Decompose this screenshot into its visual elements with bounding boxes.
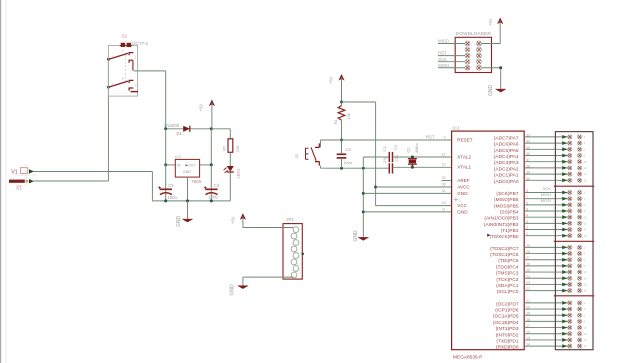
pin number 27	[526, 256, 530, 260]
capacitor C2 name	[393, 144, 398, 150]
header PORTA pin row 6	[562, 166, 587, 170]
header PORTB pin row 5	[562, 215, 587, 219]
svg-text:10: 10	[584, 326, 587, 330]
svg-text:9: 9	[444, 135, 446, 139]
switch S1 pole 2 contacts	[109, 80, 138, 91]
svg-text:X1: X1	[16, 186, 22, 192]
label DOWNLOADER	[456, 31, 491, 37]
svg-text:C4: C4	[214, 183, 220, 188]
wire PB pin 6 to header	[524, 204, 568, 206]
wire ISP VCC to +5V	[481, 25, 500, 44]
junction gnd column AGND row	[362, 192, 365, 195]
svg-text:C1: C1	[382, 146, 387, 152]
capacitor C5	[158, 165, 172, 201]
mark at PB0 pin	[487, 234, 490, 237]
ground symbol (ISP)	[496, 89, 506, 92]
pin name (OC2)PD7	[496, 301, 519, 307]
svg-text:8: 8	[584, 264, 586, 268]
pin name AVCC	[457, 184, 470, 189]
crystal Q1 name	[405, 146, 410, 152]
net label SCK (ISP)	[438, 57, 447, 62]
header PORTA pin row 8	[562, 178, 587, 182]
JP1 pad 2	[291, 233, 297, 239]
LED LED1	[224, 166, 234, 173]
wire PD pin 14 to header	[524, 345, 568, 347]
wire ISP RST stub	[438, 55, 465, 57]
pin name (SCL)PC0	[497, 289, 519, 295]
svg-text:OUT: OUT	[188, 164, 196, 168]
IC IC1 name	[453, 126, 460, 131]
JP1 mark	[301, 253, 304, 256]
wire gnd rail under regulator	[152, 200, 230, 202]
pin number 15	[526, 336, 530, 340]
wire switch output to diode column	[134, 71, 166, 129]
svg-text:3: 3	[122, 49, 124, 53]
wire PA pin 36 to header	[524, 155, 568, 157]
wire AREF stub	[442, 180, 452, 182]
header PORTB pin row 4	[562, 209, 585, 213]
supply +5V arrow (reset pullup)	[338, 74, 344, 102]
pin number 9 (RESET)	[444, 135, 446, 139]
svg-text:10: 10	[584, 215, 587, 219]
pin number 18	[526, 318, 530, 322]
svg-text:(ADC6)PA6: (ADC6)PA6	[494, 142, 519, 148]
svg-text:MISO: MISO	[438, 39, 448, 44]
svg-text:+5V: +5V	[199, 104, 204, 112]
wire PC pin 27 to header	[524, 259, 568, 261]
wire PB pin 8 to header	[524, 192, 568, 194]
wire GND row	[363, 211, 451, 213]
diode D1	[183, 126, 190, 132]
header PORTC pin row 3	[562, 258, 585, 262]
pin cross mark	[454, 197, 461, 202]
supply +5V arrow (ISP)	[497, 18, 503, 26]
pin name (ADC7)PA7	[494, 135, 519, 141]
pin name GND	[457, 191, 468, 196]
wire PC pin 25 to header	[524, 271, 568, 273]
svg-text:+5V: +5V	[488, 18, 493, 26]
switch S1 link line	[125, 55, 127, 84]
svg-text:(INT0)PD2: (INT0)PD2	[496, 332, 519, 338]
wire S2 bottom to gnd row	[320, 166, 322, 169]
svg-text:14: 14	[584, 283, 587, 287]
svg-text:GND: GND	[457, 209, 468, 214]
ground symbol (power section)	[182, 201, 192, 222]
wire PD pin 16 to header	[524, 333, 568, 335]
pin number 25	[526, 269, 530, 273]
wire LED1 to gnd rail	[229, 172, 231, 201]
connector X1 pad minus	[9, 179, 34, 192]
svg-text:12: 12	[584, 166, 587, 170]
svg-text:MEGA8535-P: MEGA8535-P	[453, 354, 483, 360]
wire C1 left plate to gnd column	[363, 156, 389, 158]
junction switch common pole 2	[107, 86, 110, 89]
pin name (TDI)PC5	[498, 258, 519, 264]
svg-text:JP1: JP1	[286, 217, 294, 222]
svg-text:(AIN0/INT2)PB2: (AIN0/INT2)PB2	[484, 222, 519, 228]
regulator value 7805	[191, 179, 202, 185]
pin number 39	[526, 171, 530, 175]
switch S1 pin numbers pole 2	[112, 76, 137, 87]
supply +5V arrow (power section)	[209, 100, 215, 129]
wire PC pin 26 to header	[524, 265, 568, 267]
pin name VCC	[457, 203, 467, 208]
ISP header body	[455, 37, 491, 72]
svg-text:2: 2	[584, 191, 586, 195]
wire +5V to JP1 pin 1	[243, 227, 294, 229]
svg-text:(SCK)PB7: (SCK)PB7	[496, 191, 518, 197]
pin name AREF	[457, 178, 469, 183]
svg-text:(TDI)PC5: (TDI)PC5	[498, 258, 519, 264]
JP1 pad 5	[293, 253, 299, 259]
pin name (ADC4)PA4	[494, 154, 519, 160]
svg-text:10k: 10k	[346, 113, 351, 119]
net label MOSI (ISP)	[438, 63, 448, 68]
svg-text:(OC1A)PD5: (OC1A)PD5	[493, 314, 519, 320]
pin number 24	[526, 275, 530, 279]
svg-text:SCK: SCK	[438, 57, 447, 62]
svg-text:30: 30	[442, 182, 446, 186]
wire RESET row	[321, 139, 452, 141]
pin name (TXD)PD1	[496, 338, 518, 344]
capacitor C5 value 100n	[167, 195, 177, 200]
wire ISP MOSI stub	[438, 67, 465, 69]
pin number 21	[526, 299, 530, 303]
junction ISP GND	[499, 66, 502, 69]
pin name (OC1B)PD4	[493, 320, 519, 326]
JP1 pad 8	[291, 272, 297, 278]
wire PA pin 34 to header	[524, 142, 568, 144]
svg-text:XTAL2: XTAL2	[457, 154, 471, 159]
junction regulator GND on rail	[186, 199, 189, 202]
net label MISO (ISP)	[438, 39, 448, 44]
pin name RESET	[457, 137, 473, 142]
switch S1 label	[122, 34, 128, 39]
svg-text:IN: IN	[177, 164, 181, 168]
net label MOSI	[541, 198, 551, 203]
pin number 33	[526, 133, 530, 137]
svg-text:(ADC4)PA4: (ADC4)PA4	[494, 154, 519, 160]
ground symbol (JP1)	[238, 286, 248, 289]
header PORTD pin row 7	[562, 338, 587, 342]
svg-text:(MISO)PB6: (MISO)PB6	[494, 197, 519, 203]
pin number 40	[526, 177, 530, 181]
pin number 12 (XTAL2)	[442, 152, 446, 156]
svg-text:4: 4	[584, 197, 586, 201]
svg-text:(AIN1/OC0)PB3: (AIN1/OC0)PB3	[484, 216, 518, 222]
svg-text:(OC1B)PD4: (OC1B)PD4	[493, 320, 519, 326]
junction diode anode	[164, 127, 167, 130]
resistor R1 (zigzag)	[338, 102, 345, 140]
svg-text:GND: GND	[183, 170, 191, 174]
svg-text:8MHz: 8MHz	[415, 143, 419, 153]
svg-text:100u: 100u	[208, 195, 218, 200]
wire gnd row (S2/C3/xtal caps)	[321, 167, 390, 169]
pin name (TCK)PC2	[496, 277, 518, 283]
svg-text:1: 1	[135, 56, 137, 60]
border frame left edge	[1, 0, 6, 363]
pin number 31 (GND)	[442, 189, 446, 193]
wire PC pin 23 to header	[524, 283, 568, 285]
pin name (ICP1)PD6	[495, 308, 519, 314]
svg-text:C3: C3	[346, 147, 352, 152]
svg-text:6: 6	[584, 258, 586, 262]
JP1 pad 1	[293, 227, 299, 233]
resistor R1 name	[333, 119, 338, 125]
IC IC1 body	[452, 131, 525, 350]
svg-text:10: 10	[584, 270, 587, 274]
svg-text:11: 11	[442, 207, 446, 211]
pin number 3	[526, 220, 528, 224]
wire R2 to LED1	[229, 152, 231, 166]
svg-text:22p: 22p	[382, 156, 387, 163]
wire AGND row	[363, 192, 451, 194]
svg-text:RST: RST	[426, 134, 435, 139]
svg-text:8: 8	[584, 320, 586, 324]
svg-text:16: 16	[584, 344, 587, 348]
pin number 23	[526, 281, 530, 285]
svg-text:(SDA)PC1: (SDA)PC1	[496, 283, 519, 289]
capacitor C3	[337, 140, 347, 168]
wire PA pin 38 to header	[524, 167, 568, 169]
header PORTC pin row 4	[562, 264, 585, 268]
wire PB pin 4 to header	[524, 216, 568, 218]
svg-text:S2: S2	[294, 153, 299, 159]
header PORTA pin row 3	[562, 147, 585, 151]
svg-text:14: 14	[584, 338, 587, 342]
supply +5V arrow (JP1)	[240, 213, 246, 227]
svg-text:22p: 22p	[394, 154, 399, 161]
wire PC pin 22 to header	[524, 290, 568, 292]
wire PA pin 33 to header	[524, 136, 568, 138]
JP1 pad 3	[293, 240, 299, 246]
wire PB pin 7 to header	[524, 198, 568, 200]
header PORTB pin row 1	[562, 190, 585, 194]
switch S1 pole 1 contacts	[109, 53, 134, 71]
svg-text:(ADC1)PA1: (ADC1)PA1	[494, 173, 519, 179]
pushbutton S2	[306, 143, 320, 165]
junction switch common pole 1	[107, 58, 110, 61]
header PORTB pin row 2	[562, 197, 585, 201]
svg-text:(ADC0)PA0: (ADC0)PA0	[494, 179, 519, 185]
capacitor C1 value 22p	[382, 156, 387, 163]
wire regulator GND pin	[187, 177, 189, 201]
wire switch column to regulator IN	[165, 129, 167, 165]
pin name (ADC6)PA6	[494, 142, 519, 148]
svg-text:13: 13	[442, 163, 446, 167]
svg-text:14: 14	[584, 172, 587, 176]
label GND (mcu)	[353, 230, 359, 242]
svg-text:12: 12	[442, 152, 446, 156]
header PORTD pin row 5	[562, 325, 587, 329]
wire OUT stub	[200, 164, 212, 166]
wire PA pin 37 to header	[524, 161, 568, 163]
pin name (TOSC1)PC6	[490, 252, 519, 258]
svg-text:XTAL1: XTAL1	[457, 165, 471, 170]
svg-text:6: 6	[584, 203, 586, 207]
header PORTC pin row 6	[562, 276, 587, 280]
wire ISP MISO stub	[438, 43, 465, 45]
svg-text:LED1: LED1	[235, 168, 240, 179]
header PORTD pin row 6	[562, 332, 587, 336]
pin number 35	[526, 146, 530, 150]
svg-text:2: 2	[459, 198, 461, 202]
pin name (AIN1/OC0)PB3	[484, 216, 518, 222]
svg-text:DCTT-2: DCTT-2	[132, 41, 148, 46]
capacitor C3 name	[346, 147, 352, 152]
header blocks outer box	[555, 132, 593, 350]
wire PD pin 19 to header	[524, 314, 568, 316]
capacitor C5 name	[168, 183, 174, 188]
pin number 19	[526, 312, 530, 316]
svg-text:(SS)PB4: (SS)PB4	[500, 210, 519, 216]
pin number 16	[526, 330, 530, 334]
header PORTD pin row 8	[562, 344, 587, 348]
svg-text:Q1: Q1	[405, 146, 410, 152]
svg-text:12: 12	[584, 276, 587, 280]
header PORTC pin row 1	[562, 245, 585, 249]
resistor R2	[228, 139, 233, 153]
pin number 38	[526, 164, 530, 168]
wire XTAL1 row	[393, 166, 452, 168]
JP1 pad 6	[291, 259, 297, 265]
diode D1 name	[177, 131, 183, 136]
pin number 1	[526, 232, 528, 236]
capacitor C4 value 100u	[208, 195, 218, 200]
wire corner down at x152	[151, 172, 153, 201]
header PORTC pin row 8	[562, 288, 587, 292]
pin number 10 (VCC)	[442, 201, 446, 205]
svg-text:R1: R1	[333, 119, 338, 125]
voltage regulator IC2 7805 body	[175, 159, 199, 177]
pin name (ADC3)PA3	[494, 160, 519, 166]
pin number 29	[526, 244, 530, 248]
svg-text:GND: GND	[353, 230, 359, 242]
wire PB pin 1 to header	[524, 235, 568, 237]
wire PA pin 35 to header	[524, 148, 568, 150]
svg-text:7805: 7805	[191, 179, 202, 185]
capacitor C1 plates	[389, 152, 392, 162]
pin name GND	[457, 209, 468, 214]
label +5V (JP1)	[230, 216, 235, 224]
svg-text:100n: 100n	[343, 160, 352, 165]
svg-text:+5V: +5V	[230, 216, 235, 224]
svg-text:S1: S1	[122, 34, 128, 39]
svg-text:RESET: RESET	[457, 137, 473, 142]
junction C4 gnd	[210, 199, 213, 202]
resistor R2 name	[222, 145, 227, 151]
svg-text:(T1)PB1: (T1)PB1	[501, 228, 519, 234]
svg-text:C2: C2	[393, 144, 398, 150]
header divider 1	[554, 185, 594, 187]
wire ISP GND	[481, 68, 500, 89]
svg-text:10: 10	[442, 201, 446, 205]
pin name (T1)PB1	[501, 228, 519, 234]
svg-text:6: 6	[122, 76, 124, 80]
wire AVCC junction	[374, 186, 377, 189]
pin name (ADC0)PA0	[494, 179, 519, 185]
header PORTD pin row 1	[562, 301, 585, 305]
junction gnd row / gnd column	[362, 167, 365, 170]
wire VCC row	[376, 205, 452, 207]
net label MISO	[541, 192, 551, 197]
pin name (INT1)PD3	[496, 326, 519, 332]
label GND (power section)	[176, 216, 182, 228]
pin name (MISO)PB6	[494, 197, 519, 203]
capacitor C3 value 100n	[343, 160, 352, 165]
wire +5V vertical to regulator OUT	[210, 129, 212, 165]
label GND (JP1)	[230, 284, 236, 296]
pin number 14	[526, 343, 530, 347]
label +5V (reset pullup)	[329, 76, 334, 84]
junction +5V branch	[340, 101, 343, 104]
resistor R2 value 220	[235, 145, 240, 152]
junction regulator IN / C5	[164, 163, 167, 166]
pushbutton S2 name	[294, 153, 299, 159]
switch S1 pin numbers pole 1	[112, 49, 137, 60]
pin number 22	[526, 287, 530, 291]
ISP pad row 1	[465, 41, 481, 46]
header PORTB pin row 7	[562, 227, 587, 231]
svg-text:8: 8	[584, 154, 586, 158]
pin name (ADC1)PA1	[494, 173, 519, 179]
svg-text:GND: GND	[230, 284, 236, 296]
wire PA pin 39 to header	[524, 173, 568, 175]
header PORTD pin row 4	[562, 319, 585, 323]
pin number 7	[526, 195, 528, 199]
wire diode row corner down	[229, 129, 231, 139]
pin number 34	[526, 140, 530, 144]
capacitor C4 name	[214, 183, 220, 188]
junction C5 gnd	[164, 199, 167, 202]
switch S1 value DCTT-2	[132, 41, 148, 46]
pin number 32 (AREF)	[442, 176, 446, 180]
svg-text:(TMS)PC3: (TMS)PC3	[496, 271, 519, 277]
wire PC pin 29 to header	[524, 246, 568, 248]
ISP pad row 4	[465, 59, 481, 64]
wire ISP SCK stub	[438, 61, 465, 63]
pin name (SS)PB4	[500, 210, 519, 216]
net label SCK	[543, 186, 552, 191]
header PORTB pin row 3	[562, 203, 585, 207]
wire PD pin 21 to header	[524, 302, 568, 304]
svg-text:14: 14	[584, 228, 587, 232]
pin number 26	[526, 262, 530, 266]
svg-text:IC2: IC2	[175, 155, 181, 159]
pin name (MOSI)PB5	[494, 203, 519, 209]
svg-text:(T0/XCK)PB0: (T0/XCK)PB0	[489, 234, 518, 240]
label +5V (ISP)	[488, 18, 493, 26]
pin number 17	[526, 324, 530, 328]
svg-text:GND: GND	[457, 191, 468, 196]
svg-text:12: 12	[584, 332, 587, 336]
wire PD pin 15 to header	[524, 339, 568, 341]
svg-text:SCK: SCK	[543, 186, 552, 191]
wire PC pin 28 to header	[524, 253, 568, 255]
pin number 2	[526, 226, 528, 230]
wire PD pin 20 to header	[524, 308, 568, 310]
svg-text:MISO: MISO	[541, 192, 551, 197]
pin number 20	[526, 306, 530, 310]
svg-text:6: 6	[584, 147, 586, 151]
pin name (TMS)PC3	[496, 271, 519, 277]
pin name (T0/XCK)PB0	[489, 234, 518, 240]
pin number 36	[526, 152, 530, 156]
pin name XTAL1	[457, 165, 471, 170]
header PORTA pin row 1	[562, 135, 585, 139]
svg-text:(TCK)PC2: (TCK)PC2	[496, 277, 518, 283]
wire V1 to regulator input (top run)	[34, 171, 153, 173]
